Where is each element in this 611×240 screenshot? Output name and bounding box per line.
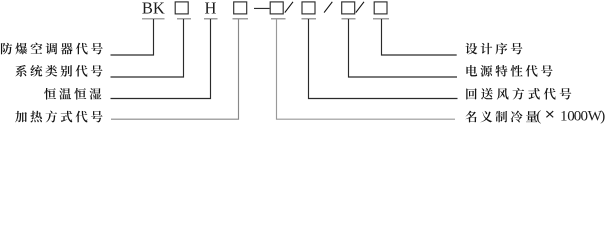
multiplication sign (546, 111, 553, 117)
code letter "H" (constant temp/humidity) (205, 0, 217, 18)
dash separator (254, 7, 270, 9)
svg-text:): ) (600, 109, 605, 125)
placeholder box 4 (air return mode) (302, 2, 315, 14)
label: 系统类别代号 (system category code) (15, 65, 102, 77)
leader line: box 5 to label 电源特性代号 (349, 19, 458, 77)
leader line: box 2 to label 加热方式代号 (111, 19, 239, 119)
slash separator 1 (285, 2, 293, 13)
model code letters "BK" (142, 0, 165, 18)
label: 名义制冷量 (nominal cooling capacity) (465, 111, 537, 123)
placeholder box 6 (design serial number) (374, 2, 387, 14)
slash separator 3 (356, 2, 364, 13)
placeholder box 5 (power supply characteristic) (342, 2, 355, 14)
label: 恒温恒湿 (constant temperature & humidity) (44, 88, 101, 100)
underline under box 5 (342, 18, 356, 20)
leader line: box 1 to label 系统类别代号 (111, 19, 184, 77)
slash separator 2 (324, 2, 332, 13)
leader line: box 3 to label 名义制冷量(×1000W) (277, 19, 456, 119)
leader line: BK to label 防爆空调器代号 (111, 19, 154, 55)
label suffix: (×1000W) (536, 109, 541, 125)
label: 防爆空调器代号 (explosion-proof A/C code) (1, 43, 103, 55)
label: 设计序号 (design serial number) (465, 43, 522, 55)
placeholder box 3 (nominal cooling capacity) (270, 2, 283, 14)
underline under box 6 (373, 18, 389, 20)
underline under box 4 (302, 18, 317, 20)
svg-text:(: ( (536, 109, 541, 125)
leader line: box 4 to label 回送风方式代号 (309, 19, 458, 99)
leader line: box 6 to label 设计序号 (382, 19, 457, 55)
label: 回送风方式代号 (air return mode code) (466, 88, 571, 100)
leader line: H to label 恒温恒湿 (111, 19, 211, 99)
underline under H (204, 18, 218, 20)
placeholder box 2 (heating mode) (234, 2, 247, 14)
label: 加热方式代号 (heating mode code) (15, 111, 102, 123)
placeholder box 1 (system category) (175, 2, 188, 14)
underline under box 2 (233, 18, 249, 20)
svg-text:H: H (205, 0, 217, 18)
underline under box 1 (177, 18, 191, 20)
label: 电源特性代号 (power supply code) (466, 65, 552, 77)
svg-text:BK: BK (142, 0, 165, 18)
underline under BK (142, 18, 165, 20)
underline under box 3 (271, 18, 286, 20)
